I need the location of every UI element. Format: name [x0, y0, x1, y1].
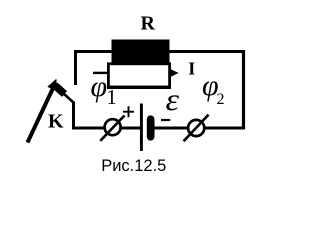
- battery negative short plate: [147, 115, 155, 140]
- wire bottom right from battery to right corner: [153, 127, 245, 130]
- wire switch pivot down to bottom-left corner and to battery: [74, 102, 142, 129]
- wire top side: [74, 50, 245, 53]
- plus sign: [123, 106, 134, 117]
- label phi1: [91, 70, 117, 109]
- svg-text:1: 1: [106, 85, 117, 109]
- svg-text:I: I: [188, 59, 195, 79]
- svg-text:φ: φ: [91, 70, 108, 103]
- wire left side to switch open contact: [74, 50, 77, 85]
- resistor R black box: [112, 40, 170, 65]
- svg-text:2: 2: [217, 91, 225, 108]
- wire switch blade to bottom wire: [64, 94, 75, 104]
- terminal left circle with slash: [100, 116, 124, 141]
- label phi2: [202, 69, 225, 108]
- rheostat body white box: [108, 64, 169, 87]
- current arrow I: [171, 69, 179, 76]
- switch blade contact: [55, 86, 65, 95]
- wire right side: [242, 50, 245, 130]
- rheostat left terminal stub: [93, 72, 108, 74]
- svg-text:ε: ε: [166, 81, 180, 117]
- terminal right circle with slash: [184, 115, 209, 142]
- svg-text:R: R: [141, 13, 156, 35]
- minus sign: [161, 119, 170, 121]
- battery positive long plate: [140, 104, 143, 152]
- svg-text:Рис.12.5: Рис.12.5: [101, 157, 166, 175]
- svg-text:K: K: [48, 111, 64, 133]
- switch K lever: [28, 79, 58, 143]
